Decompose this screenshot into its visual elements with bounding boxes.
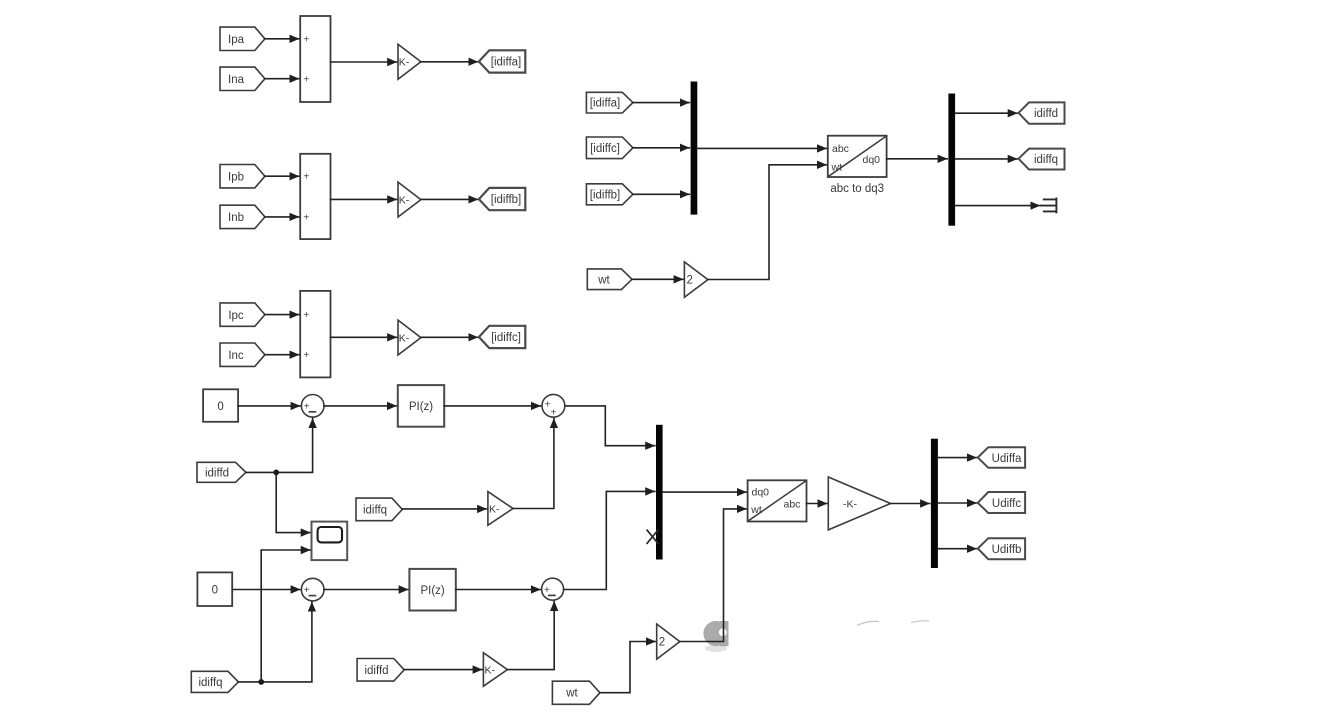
svg-text:Ipb: Ipb [228,171,244,183]
svg-text:K-: K- [399,57,410,69]
wire idiffb to Mux1 [633,193,689,195]
wire gain K6 to Demux2 [891,503,930,505]
From tag Inb [220,205,265,228]
wire idiffq to Sum3 minus input [238,602,312,682]
constant block 0 (d-axis) [203,389,238,422]
demux Demux2 [931,439,938,568]
svg-text:Ipc: Ipc [228,310,244,322]
svg-text:[idiffc]: [idiffc] [491,332,521,344]
svg-text:Ipa: Ipa [228,34,245,46]
wire Add1 to gain K1 [331,61,397,63]
wire gain K2 to Goto idiffb [421,198,478,200]
svg-text:2: 2 [687,275,693,287]
svg-text:+: + [304,585,310,596]
gain K4 [488,492,513,526]
svg-text:PI(z): PI(z) [409,401,433,413]
constant block 0 (q-axis) [197,572,232,606]
wire PIz1 to Sum2 [444,405,540,407]
wire Ina to Add1 [265,78,299,80]
svg-text:+: + [303,172,309,183]
wire Sum4 to Mux2 input2 [564,491,655,589]
PI controller block PIz1 [398,385,444,427]
SECTION ROW A [220,16,525,102]
sum circle Sum3 [301,578,324,601]
svg-text:Udiffc: Udiffc [992,498,1021,510]
svg-text:+: + [303,350,309,361]
gain K2 [398,182,421,217]
gain K6 value -K- [828,477,890,530]
wire idiffa to Mux1 [633,102,689,104]
junction dot idiffq branch [258,679,264,685]
From tag Ipa [220,27,265,50]
Goto tag Udiffb [978,538,1025,559]
svg-text:+: + [303,74,309,85]
wire idiffq branch to Scope input2 [261,550,310,682]
From tag Ina [220,67,265,90]
wire Sum3 to PIz2 [324,589,408,591]
svg-text:Udiffa: Udiffa [992,453,1022,465]
gain K3 [398,320,421,355]
wire Inc to Add3 [265,354,299,356]
wire constant0q to Sum3 [232,589,300,591]
svg-text:[idiffc]: [idiffc] [590,143,620,155]
Goto tag [idiffa] [479,50,525,72]
wire gain G2b to dq0-to-abc input wt [680,509,747,642]
wire Demux2 out3 to Goto Udiffb [938,548,977,550]
wire idiffd to Sum1 minus input [246,418,313,472]
svg-text:[idiffa]: [idiffa] [590,98,620,110]
From tag wt (bottom) [552,681,600,704]
watermark streak 1 [857,621,879,625]
wire gain K1 to Goto idiffa [421,61,478,63]
svg-text:-K-: -K- [843,498,858,510]
wire idiffq to gain K4 [402,508,486,510]
wire gain G2a to abc-to-dq0 input wt [708,165,827,280]
svg-text:+: + [303,212,309,223]
From tag idiffd (q-axis feedback) [357,659,404,682]
wire Add3 to gain K3 [331,336,397,338]
wire gain K4 to Sum2 plus input [513,419,554,509]
From tag idiffd [197,462,246,482]
svg-text:+: + [544,585,550,596]
svg-text:abc: abc [784,499,801,511]
sum circle Sum4 [542,578,564,600]
wire idiffd to gain K5 [404,669,482,671]
sum block Add1 [300,16,330,102]
wire dq0-to-abc to gain K6 [807,503,828,505]
sum block Add2 [300,154,330,239]
svg-text:+: + [551,408,557,419]
svg-text:wt: wt [565,688,578,700]
svg-text:2: 2 [659,637,665,649]
svg-text:PI(z): PI(z) [420,585,444,597]
SECTION ROW Q [191,491,746,704]
demux Demux1 [948,94,955,226]
svg-text:+: + [303,34,309,45]
sum circle Sum1 [301,395,324,418]
SECTION ROW B [220,154,525,239]
wire PIz2 to Sum4 [456,589,541,591]
svg-text:idiffd: idiffd [364,665,388,677]
terminator T1 [1041,199,1056,213]
svg-text:idiffq: idiffq [1034,154,1058,166]
wire Demux2 out1 to Goto Udiffa [938,457,977,459]
wire Demux1 out1 to Goto idiffd [955,112,1017,114]
wire wt to gain G2b [600,642,656,693]
svg-text:Inc: Inc [228,350,244,362]
Goto tag [idiffc] [479,326,525,348]
From tag idiffq (bottom) [191,671,238,692]
SECTION BOTRIGHT [647,425,1025,568]
wire gain K3 to Goto idiffc [421,336,478,338]
From tag Inc [220,343,265,366]
Goto tag idiffd [1019,102,1065,123]
mux Mux2 [656,425,663,560]
svg-text:idiffd: idiffd [205,467,229,479]
gain G2a value 2 [684,262,708,297]
sum circle Sum2 [542,394,565,418]
svg-text:K-: K- [399,332,410,344]
PI controller block PIz2 [409,569,455,611]
svg-text:+: + [304,401,310,412]
Goto tag Udiffa [978,447,1025,468]
svg-text:[idiffa]: [idiffa] [491,57,521,69]
svg-text:K-: K- [489,503,500,515]
mux Mux1 [691,82,698,215]
wire gain K5 to Sum4 minus input [507,601,554,669]
wire Sum2 to Mux2 input1 [565,406,655,446]
wire idiffd branch to Scope input1 [276,472,310,532]
SECTION ROW C [220,291,525,378]
watermark streak 2 [911,621,929,623]
svg-text:[idiffb]: [idiffb] [590,189,620,201]
wire Sum1 to PIz1 [324,405,397,407]
svg-text:+: + [303,310,309,321]
svg-text:Udiffb: Udiffb [992,544,1022,556]
svg-text:idiffq: idiffq [363,504,387,516]
sum block Add3 [300,291,330,378]
wire Mux1 to abc-to-dq0 input abc [697,147,826,149]
svg-text:Inb: Inb [228,212,244,224]
From tag idiffq (d-axis feedback) [356,498,402,521]
junction dot idiffd branch [273,470,279,476]
wire idiffc to Mux1 [633,147,689,149]
svg-text:0: 0 [217,401,223,413]
gain K5 [483,653,507,687]
wire abc-to-dq0 to Demux1 [887,158,948,160]
svg-text:Ina: Ina [228,74,245,86]
From tag Ipb [220,165,265,188]
svg-text:wt: wt [831,161,843,173]
transform block dq0 to abc (U2) [748,480,807,521]
svg-text:dq0: dq0 [752,486,770,498]
wire wt to gain G2a [632,278,683,280]
wire Add2 to gain K2 [331,198,397,200]
wire Ipb to Add2 [265,175,299,177]
wire Inb to Add2 [265,216,299,218]
Goto tag Udiffc [978,492,1025,513]
watermark blob [703,621,728,652]
transform block abc to dq0 (U1) [828,136,887,177]
wire Demux1 out3 to terminator [955,205,1040,207]
svg-text:wt: wt [750,504,762,516]
svg-text:[idiffb]: [idiffb] [491,194,521,206]
From tag [idiffa] [586,92,633,113]
svg-text:K-: K- [485,665,496,677]
svg-text:abc: abc [832,143,849,155]
From tag Ipc [220,303,265,326]
SECTION TOPRIGHT [586,82,1064,298]
wire Mux2 to dq0-to-abc input dq0 [663,491,747,493]
wire Demux2 out2 to Goto Udiffc [938,502,977,504]
Goto tag [idiffb] [479,188,525,210]
gain K1 [398,44,421,79]
svg-text:K-: K- [399,194,410,206]
From tag [idiffb] [586,184,633,205]
svg-text:abc to dq3: abc to dq3 [830,183,884,195]
svg-text:wt: wt [597,274,610,286]
wire Ipa to Add1 [265,38,299,40]
From tag [idiffc] [586,137,633,159]
svg-text:dq0: dq0 [863,154,881,166]
wire constant0d to Sum1 [238,405,300,407]
wire Ipc to Add3 [265,314,299,316]
Goto tag idiffq [1019,149,1065,170]
wire Demux1 out2 to Goto idiffq [955,158,1017,160]
gain G2b value 2 [657,624,680,659]
unconnected port mark X on Mux2 input3 [647,530,658,543]
svg-text:idiffd: idiffd [1034,108,1058,120]
svg-text:idiffq: idiffq [198,677,222,689]
From tag wt [587,269,632,290]
svg-text:0: 0 [212,585,218,597]
scope block Scope1 [312,522,348,561]
SECTION ROW D [197,385,655,560]
